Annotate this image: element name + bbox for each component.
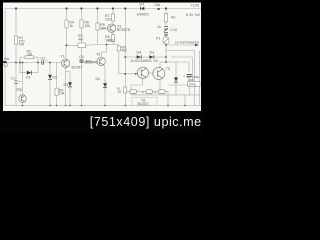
microphone MIC	[3, 57, 10, 67]
diode D6	[149, 51, 154, 59]
potentiometer P1	[156, 37, 169, 45]
svg-text:100µ: 100µ	[189, 82, 197, 86]
wire vertical x113 R7 T3 R8	[112, 9, 114, 45]
wire diode OR row	[125, 56, 166, 58]
resistor R7	[105, 14, 115, 21]
svg-text:1W: 1W	[19, 43, 25, 47]
svg-text:22k: 22k	[105, 17, 111, 21]
svg-text:+: +	[183, 75, 185, 79]
svg-text:mic: mic	[4, 57, 9, 61]
wire C3 to node y44.5	[86, 44, 119, 47]
wire bottom caps row	[125, 92, 168, 106]
wire T4 T5 couple	[148, 72, 154, 74]
wire vertical x22.5 to T7	[22, 63, 24, 106]
svg-text:1k: 1k	[69, 24, 73, 28]
svg-text:D4: D4	[96, 77, 101, 81]
svg-text:10µ: 10µ	[16, 88, 22, 92]
svg-text:T2: T2	[96, 52, 100, 56]
svg-text:[751x409] upic.me: [751x409] upic.me	[90, 115, 202, 129]
junction dots bottom rail	[22, 105, 24, 107]
capacitor row cap2	[146, 90, 153, 94]
electrolytic cap C6	[183, 75, 200, 87]
schematic paper	[3, 3, 201, 112]
svg-text:C4: C4	[79, 55, 84, 59]
output arrow	[175, 40, 199, 46]
wire top +12V rail	[5, 8, 201, 10]
svg-text:1M: 1M	[27, 52, 32, 56]
wire T2 emitter down	[103, 65, 105, 106]
wire T5 collector top	[160, 62, 166, 68]
svg-text:+: +	[45, 59, 47, 63]
svg-text:49C: 49C	[85, 59, 92, 63]
svg-text:T5: T5	[166, 67, 170, 71]
wire right border	[199, 51, 201, 106]
svg-text:D2: D2	[52, 76, 57, 80]
svg-text:P1: P1	[156, 37, 160, 41]
wire vertical x166 lamp chain	[165, 9, 167, 63]
resistor R2	[25, 49, 34, 58]
wire vertical x125.3	[124, 9, 126, 106]
wire vertical x81.5 R6 C4	[81, 9, 83, 106]
wire bottom 0V rail	[5, 105, 201, 107]
svg-text:Da: Da	[150, 51, 155, 55]
wire relay coil right	[131, 77, 200, 106]
diode D4	[96, 77, 108, 88]
capacitor row cap3	[158, 90, 165, 94]
LED D8 stack	[157, 25, 177, 36]
resistor R4	[65, 20, 74, 28]
wire mid horizontal y73.8	[119, 73, 138, 75]
wire T2 base	[82, 61, 97, 63]
svg-text:4k7: 4k7	[121, 48, 127, 52]
wire x118 R9	[118, 45, 120, 74]
wire T1 collector link to C3	[67, 44, 78, 46]
svg-text:T1: T1	[61, 55, 65, 59]
capacitor C4	[79, 55, 98, 65]
wire T4 emitter path	[131, 78, 143, 95]
resistor R5	[55, 88, 65, 95]
transistor T4	[137, 67, 148, 78]
svg-text:BC557B: BC557B	[117, 28, 131, 32]
wire node B to C2	[38, 62, 41, 64]
resistor R8	[105, 35, 115, 43]
wire left border	[4, 9, 6, 106]
freewheel diode D9	[174, 77, 178, 82]
relay box T6	[132, 97, 157, 106]
wire vertical x66.5 R4 T1	[66, 9, 67, 106]
transistor T5	[153, 67, 170, 80]
svg-text:BC337: BC337	[138, 102, 149, 106]
svg-text:C10: C10	[171, 28, 178, 32]
wire vertical x16 R1 branch	[15, 9, 17, 106]
transistor T1	[61, 55, 83, 70]
wire relay top	[166, 62, 189, 72]
svg-text:6.3V 1W: 6.3V 1W	[186, 13, 200, 17]
wire nested corner 1	[166, 51, 195, 106]
resistor R9	[117, 45, 127, 52]
terminal mark	[158, 8, 160, 10]
svg-text:4k7: 4k7	[78, 37, 84, 41]
wire T5 emitter	[159, 79, 161, 91]
resistor R1	[14, 36, 24, 47]
svg-text:10k: 10k	[84, 24, 90, 28]
wire mic to C1	[7, 62, 16, 64]
capacitor C1 electrolytic	[11, 77, 23, 92]
diode D5	[137, 51, 143, 59]
svg-text:DA: DA	[137, 51, 143, 55]
svg-text:C1: C1	[11, 77, 16, 81]
resistor R11	[117, 87, 126, 94]
svg-text:BC547: BC547	[72, 66, 83, 70]
svg-text:10: 10	[117, 90, 121, 94]
wire R2 branch	[20, 57, 38, 62]
resistor R3b x97.5	[96, 23, 106, 30]
diode D1	[26, 71, 31, 80]
svg-text:Rx: Rx	[171, 16, 176, 20]
zener diode D2	[48, 75, 57, 80]
junction dots top rail	[15, 7, 186, 106]
wire T2 collector up	[101, 45, 106, 58]
svg-text:D1: D1	[26, 76, 31, 80]
svg-text:1N4001: 1N4001	[137, 12, 150, 16]
resistor R10	[164, 14, 175, 23]
svg-text:zu Germanium: zu Germanium	[175, 40, 199, 44]
svg-text:10k: 10k	[100, 26, 106, 30]
wire D4 branch down	[104, 80, 106, 91]
capacitor row cap1	[130, 90, 137, 94]
svg-text:L5a: L5a	[154, 3, 160, 7]
wire vertical x97.5 R3	[97, 9, 99, 45]
junction dots mid nodes	[15, 62, 17, 64]
wire output arrow line	[166, 44, 195, 46]
svg-text:2x BC546B/C 1N: 2x BC546B/C 1N	[131, 59, 159, 63]
transistor T7 bottom left	[19, 95, 27, 103]
svg-text:D3: D3	[64, 83, 69, 87]
svg-text:100n: 100n	[107, 39, 115, 43]
transistor T2	[85, 52, 105, 65]
wire x56.6 R5 branch	[56, 63, 58, 106]
wire node A to node B	[16, 62, 38, 64]
wire D2 branch down	[49, 63, 51, 106]
wire D3 branch	[66, 72, 71, 106]
svg-text:1k: 1k	[157, 25, 161, 29]
transistor T3	[107, 24, 130, 32]
diode D7 series in rail	[137, 3, 150, 17]
resistor R6	[80, 20, 90, 28]
wire freewheel diode branch	[175, 62, 177, 95]
wire nested corner 2	[171, 57, 192, 85]
svg-text:10k: 10k	[59, 92, 65, 96]
svg-text:+12V: +12V	[191, 4, 200, 8]
diode D3	[64, 82, 73, 87]
capacitor C2	[41, 57, 48, 65]
svg-text:+: +	[19, 80, 21, 84]
wire C2 to T1 base	[44, 62, 61, 64]
wire D1 branch	[20, 63, 38, 73]
wire T3 base	[98, 27, 110, 29]
svg-text:D4: D4	[140, 3, 145, 7]
resistor R3 mid box	[78, 34, 86, 48]
